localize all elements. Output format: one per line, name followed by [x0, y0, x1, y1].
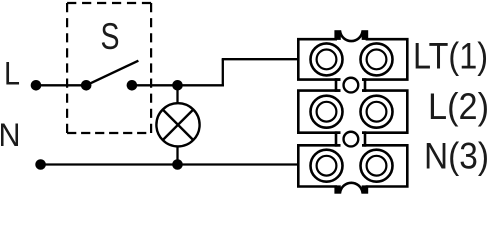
terminal block X1.1 body (LT): [298, 32, 407, 80]
wire: top run to terminal LT(1): [222, 58, 298, 60]
terminal X1.1 screw right inner: [367, 50, 387, 70]
terminal X1.2 screw right inner: [367, 102, 387, 122]
svg-text:N: N: [0, 117, 21, 153]
terminal strip slot stubs (X1.1/X1.2): [335, 80, 367, 91]
terminal X1.3 screw left inner: [317, 156, 337, 176]
junction: L feed terminal dot: [31, 80, 42, 91]
terminal block X1.3 bottom tab right (solid): [362, 185, 368, 193]
terminal strip mounting hole (between X1.1 and X1.2): [344, 78, 359, 93]
terminal strip divider tab right (X1.1/X1.2): [364, 78, 367, 92]
terminal X1.2 screw left outer: [311, 96, 343, 128]
terminal X1.2 screw left inner: [317, 102, 337, 122]
terminal X1.3 screw right inner: [367, 156, 387, 176]
switch S right contact dot: [127, 80, 138, 91]
lamp E1 cross stroke 2: [163, 110, 194, 141]
svg-text:LT(1): LT(1): [413, 36, 487, 77]
switch S left contact dot: [81, 80, 92, 91]
junction: lamp bottom node dot: [172, 159, 183, 170]
terminal block X1.2 body (L): [298, 91, 407, 133]
terminal strip mounting hole (between X1.2 and X1.3): [344, 132, 359, 147]
lamp E1 top lead: [176, 85, 178, 104]
junction: N feed terminal dot: [35, 159, 46, 170]
svg-text:L: L: [4, 56, 20, 92]
wire: N feed run to terminal N(3): [41, 163, 298, 165]
terminal X1.1 screw left inner: [317, 50, 337, 70]
terminal strip divider tab right (X1.2/X1.3): [364, 131, 367, 146]
lamp E1 body circle: [156, 103, 199, 146]
terminal block X1.3 bottom tab left (solid): [335, 185, 341, 193]
terminal strip divider tab left (X1.2/X1.3): [335, 131, 338, 146]
terminal X1.2 screw right outer: [361, 96, 393, 128]
terminal strip slot stubs (X1.2/X1.3): [335, 133, 367, 146]
terminal X1.3 screw right outer: [361, 150, 393, 182]
terminal X1.3 screw left outer: [311, 150, 343, 182]
svg-text:S: S: [101, 16, 120, 57]
svg-text:L(2): L(2): [428, 86, 487, 127]
lamp E1 cross stroke 1: [163, 110, 194, 141]
wire: lamp node to riser corner: [178, 84, 224, 86]
lamp E1 bottom lead: [176, 146, 178, 165]
terminal X1.1 screw left outer: [311, 43, 343, 75]
junction: lamp top node dot: [172, 80, 183, 91]
terminal block X1.3 body (N): [298, 145, 407, 192]
terminal X1.1 screw right outer: [361, 43, 393, 75]
switch S blade (open): [86, 61, 138, 86]
terminal block X1.1 top tab left (solid): [335, 30, 341, 40]
wire: switch output to lamp node: [132, 84, 178, 86]
svg-text:N(3): N(3): [424, 136, 487, 177]
wire: L feed from terminal dot to switch contact: [36, 84, 86, 86]
terminal strip divider tab left (X1.1/X1.2): [335, 78, 338, 92]
terminal block X1.1 top tab right (solid): [362, 30, 368, 40]
switch S enclosure (dashed box): [67, 3, 151, 133]
wire: riser up: [222, 59, 224, 86]
